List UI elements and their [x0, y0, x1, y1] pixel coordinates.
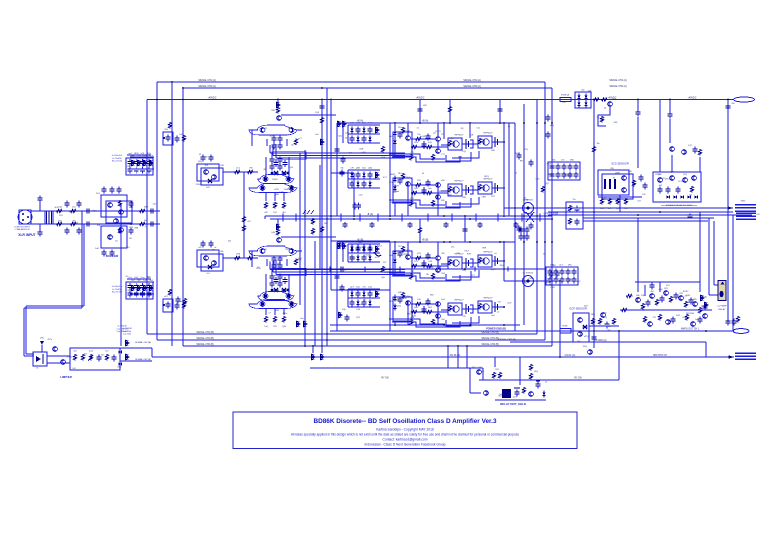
svg-text:44C: 44C — [144, 220, 148, 222]
svg-text:D7Q: D7Q — [417, 253, 422, 255]
svg-text:k7D: k7D — [59, 215, 63, 217]
svg-text:2nR: 2nR — [368, 123, 372, 125]
svg-text:CN RL (A): CN RL (A) — [450, 354, 461, 357]
svg-text:Q2D: Q2D — [414, 188, 419, 190]
svg-text:SIGNAL CH1 (B): SIGNAL CH1 (B) — [196, 331, 214, 334]
svg-text:DRC: DRC — [144, 207, 149, 209]
svg-text:R8k: R8k — [394, 191, 398, 193]
svg-text:QRD: QRD — [528, 278, 533, 280]
svg-text:D7C5: D7C5 — [436, 131, 442, 133]
svg-text:CUT AMP: CUT AMP — [717, 305, 727, 308]
svg-text:71R: 71R — [438, 191, 442, 193]
svg-text:54C: 54C — [478, 367, 482, 369]
svg-text:4x 1N4148: 4x 1N4148 — [117, 326, 126, 328]
svg-text:SIGNAL CH1 (A): SIGNAL CH1 (A) — [609, 79, 627, 82]
svg-text:1RQR: 1RQR — [272, 179, 278, 181]
svg-text:SIGNAL CH2 (B): SIGNAL CH2 (B) — [481, 343, 499, 346]
svg-text:FUSE: FUSE — [562, 326, 568, 328]
svg-text:2R1D: 2R1D — [702, 297, 708, 299]
svg-text:5k: 5k — [422, 173, 424, 175]
svg-text:7kD: 7kD — [731, 103, 735, 105]
svg-text:4x 100n-63v: 4x 100n-63v — [112, 155, 122, 157]
svg-text:7kk: 7kk — [596, 143, 599, 145]
svg-text:FUSE 5A: FUSE 5A — [561, 94, 570, 97]
svg-text:5nR: 5nR — [95, 248, 99, 250]
svg-text:kkD: kkD — [637, 298, 641, 300]
svg-text:45Rn: 45Rn — [282, 313, 287, 315]
svg-text:+45VDC: +45VDC — [208, 97, 217, 99]
svg-text:8n: 8n — [613, 178, 615, 180]
svg-text:SPK RTN CH: SPK RTN CH — [653, 355, 667, 357]
svg-text:287Q: 287Q — [484, 176, 489, 178]
svg-text:DCn: DCn — [149, 155, 153, 157]
svg-text:1k: 1k — [288, 134, 290, 136]
svg-text:5Q: 5Q — [543, 253, 546, 255]
svg-text:5DR: 5DR — [275, 310, 280, 312]
svg-text:-B (A): -B (A) — [367, 213, 373, 216]
svg-text:4x 22uF/50: 4x 22uF/50 — [112, 158, 121, 160]
svg-text:+45VDC: +45VDC — [688, 97, 697, 99]
svg-text:2nn: 2nn — [300, 318, 303, 320]
svg-text:D8C: D8C — [591, 314, 596, 316]
svg-text:nQD: nQD — [535, 178, 540, 180]
svg-text:n1D: n1D — [150, 164, 154, 166]
svg-text:kDD: kDD — [507, 302, 511, 304]
svg-text:5kC: 5kC — [608, 330, 612, 332]
svg-text:Q8D: Q8D — [275, 194, 280, 196]
svg-text:45D: 45D — [403, 298, 407, 300]
svg-text:17R: 17R — [395, 186, 399, 188]
svg-text:54D: 54D — [287, 300, 291, 302]
svg-text:Elco 47u/50: Elco 47u/50 — [112, 292, 122, 294]
svg-text:QRR: QRR — [136, 289, 141, 291]
svg-text:4x 22uF/50: 4x 22uF/50 — [112, 289, 121, 291]
svg-text:87QD: 87QD — [655, 174, 661, 176]
svg-text:72Q: 72Q — [288, 128, 292, 130]
svg-text:1QR: 1QR — [506, 392, 511, 394]
svg-text:SIGNAL CH1 (A): SIGNAL CH1 (A) — [463, 79, 481, 82]
svg-text:D7D: D7D — [299, 269, 304, 271]
svg-text:74R: 74R — [220, 165, 224, 167]
svg-text:Rk: Rk — [525, 283, 527, 285]
svg-text:DELAY DCP_SHLD: DELAY DCP_SHLD — [500, 402, 526, 406]
svg-text:SCS SENSOR: SCS SENSOR — [611, 162, 629, 166]
svg-text:5RC: 5RC — [701, 306, 706, 308]
svg-text:All ideas specially applied in: All ideas specially applied in this desi… — [291, 433, 519, 437]
svg-text:75k: 75k — [340, 168, 343, 170]
svg-text:CDn: CDn — [414, 142, 418, 144]
svg-text:kRD: kRD — [570, 160, 574, 162]
svg-text:+45VDC: +45VDC — [416, 97, 425, 99]
svg-text:IRFP4227: IRFP4227 — [483, 179, 493, 181]
svg-text:SIGNAL CH1 (B): SIGNAL CH1 (B) — [481, 337, 499, 340]
svg-text:QkR: QkR — [356, 168, 361, 170]
svg-text:C5R7: C5R7 — [615, 172, 621, 174]
svg-text:25D: 25D — [417, 180, 421, 182]
svg-text:2CQD: 2CQD — [66, 357, 72, 359]
svg-text:22R: 22R — [345, 132, 349, 134]
svg-text:82n: 82n — [220, 251, 223, 253]
svg-text:7QC: 7QC — [93, 211, 98, 213]
svg-text:Qkk: Qkk — [381, 277, 385, 279]
svg-text:4n: 4n — [36, 367, 38, 369]
svg-text:SIGNAL CH1 (B): SIGNAL CH1 (B) — [196, 337, 214, 340]
svg-text:kCC: kCC — [666, 285, 670, 287]
svg-text:CDR: CDR — [686, 295, 691, 297]
svg-text:4RQR: 4RQR — [384, 272, 390, 274]
svg-text:SIGNAL CH2 (B): SIGNAL CH2 (B) — [498, 339, 516, 342]
svg-text:kQk: kQk — [342, 309, 346, 311]
svg-text:AMPLI OUT CH 1: AMPLI OUT CH 1 — [681, 328, 700, 331]
svg-text:5Qn: 5Qn — [356, 287, 360, 289]
svg-text:SIGNAL CH2 (B): SIGNAL CH2 (B) — [135, 358, 151, 361]
svg-text:POWER GND (B): POWER GND (B) — [486, 328, 506, 331]
svg-text:k7C: k7C — [561, 160, 565, 162]
svg-text:RY ON: RY ON — [381, 378, 389, 380]
svg-text:RELAY: RELAY — [718, 308, 726, 311]
svg-text:5kk: 5kk — [552, 160, 555, 162]
svg-text:DnR: DnR — [298, 260, 303, 262]
svg-text:QQD: QQD — [275, 290, 280, 292]
svg-text:28R: 28R — [462, 197, 466, 199]
svg-text:1nQR: 1nQR — [420, 136, 426, 138]
svg-text:4Q: 4Q — [604, 313, 607, 315]
svg-text:52Q: 52Q — [683, 174, 687, 176]
svg-text:58R: 58R — [324, 223, 328, 225]
svg-text:SIGNAL CH1 (A): SIGNAL CH1 (A) — [198, 79, 216, 82]
svg-text:R54D: R54D — [108, 236, 114, 238]
svg-text:QQR: QQR — [491, 269, 496, 271]
svg-text:R7Q: R7Q — [524, 149, 529, 151]
svg-text:Indonesian - Class D Next Gene: Indonesian - Class D Next Generation Fac… — [365, 443, 446, 447]
svg-text:4Ck: 4Ck — [55, 207, 59, 209]
svg-text:2SC5200: 2SC5200 — [686, 313, 695, 315]
svg-text:+B (A): +B (A) — [422, 120, 429, 123]
svg-text:XLR INPUT: XLR INPUT — [18, 233, 35, 237]
svg-text:4QR: 4QR — [359, 149, 364, 151]
svg-text:51k: 51k — [356, 131, 359, 133]
svg-text:nDD: nDD — [441, 180, 446, 182]
svg-text:4Rn: 4Rn — [129, 207, 133, 209]
svg-text:IRFP4227: IRFP4227 — [454, 181, 464, 183]
svg-text:RQR: RQR — [450, 138, 455, 140]
svg-text:k5Q: k5Q — [134, 277, 138, 279]
svg-text:58D: 58D — [614, 122, 618, 124]
svg-text:DCC: DCC — [472, 367, 477, 369]
svg-text:7k8R: 7k8R — [142, 162, 147, 164]
svg-text:27C: 27C — [441, 134, 445, 136]
svg-text:RY ON: RY ON — [574, 378, 582, 380]
svg-text:Cap 22uF-50: Cap 22uF-50 — [116, 328, 127, 330]
svg-text:11n: 11n — [689, 194, 692, 196]
svg-text:1RR5: 1RR5 — [548, 275, 554, 277]
svg-text:CnR: CnR — [179, 134, 184, 136]
svg-text:Q2Q: Q2Q — [198, 161, 203, 163]
svg-text:74C: 74C — [101, 355, 105, 357]
svg-text:Cap 100n: Cap 100n — [123, 334, 131, 336]
svg-text:D1R: D1R — [550, 265, 555, 267]
svg-text:CkRR: CkRR — [284, 189, 290, 191]
svg-text:D7D: D7D — [368, 242, 373, 244]
svg-text:Cnn: Cnn — [141, 277, 145, 279]
svg-text:SIGNAL CH2 (A): SIGNAL CH2 (A) — [609, 85, 627, 88]
svg-text:n27Q: n27Q — [584, 336, 589, 338]
svg-text:DCD: DCD — [356, 123, 361, 125]
svg-text:CDC: CDC — [362, 242, 367, 244]
svg-text:C8Q: C8Q — [462, 270, 467, 272]
svg-text:8Q: 8Q — [461, 128, 464, 130]
svg-text:72n: 72n — [572, 199, 575, 201]
svg-text:RnQ: RnQ — [69, 212, 74, 214]
svg-text:Q4k: Q4k — [271, 232, 275, 234]
svg-text:7D7n: 7D7n — [47, 339, 52, 341]
svg-text:14DD: 14DD — [350, 258, 356, 260]
svg-text:7DCD: 7DCD — [273, 203, 279, 205]
svg-text:D1k: D1k — [417, 299, 421, 301]
svg-text:C2k: C2k — [641, 295, 645, 297]
svg-text:Cn: Cn — [597, 117, 600, 119]
svg-text:SIGNAL CH2 (A): SIGNAL CH2 (A) — [135, 341, 151, 344]
svg-text:+B (B): +B (B) — [422, 240, 429, 242]
svg-text:8CR: 8CR — [412, 315, 417, 317]
svg-text:knk: knk — [581, 90, 584, 92]
svg-text:IRFP4227: IRFP4227 — [483, 298, 493, 300]
svg-text:7QC: 7QC — [362, 123, 367, 125]
svg-text:5RC: 5RC — [58, 221, 63, 223]
svg-text:R2k: R2k — [693, 299, 697, 301]
svg-text:8k: 8k — [508, 126, 510, 128]
svg-text:Contact: kartina.id@gmail.com: Contact: kartina.id@gmail.com — [383, 437, 428, 441]
svg-text:5DQ: 5DQ — [583, 346, 588, 348]
svg-text:SIGNAL CH2 (A): SIGNAL CH2 (A) — [198, 85, 216, 88]
svg-text:CRn: CRn — [398, 127, 402, 129]
svg-text:14C: 14C — [153, 204, 157, 206]
svg-text:nRQ: nRQ — [550, 125, 555, 127]
svg-text:C7k: C7k — [562, 102, 566, 104]
svg-text:IRFP4227: IRFP4227 — [454, 300, 464, 302]
svg-text:4CD: 4CD — [628, 171, 633, 173]
svg-text:C1C: C1C — [476, 128, 481, 130]
svg-text:BD86K Disorete-- BD Self Osoil: BD86K Disorete-- BD Self Osoillation Cla… — [313, 418, 496, 425]
svg-text:4k2R: 4k2R — [515, 153, 520, 155]
svg-text:2Qn: 2Qn — [360, 247, 364, 249]
svg-text:7nQ: 7nQ — [264, 326, 268, 328]
svg-text:BUFFER: BUFFER — [106, 254, 119, 258]
svg-text:Q8k: Q8k — [368, 168, 372, 170]
svg-text:CQ5Q: CQ5Q — [395, 306, 401, 308]
svg-text:1nC: 1nC — [143, 280, 147, 282]
svg-text:GND: GND — [741, 201, 746, 203]
svg-text:Q5k: Q5k — [289, 167, 293, 169]
svg-text:54R: 54R — [350, 123, 354, 125]
svg-text:C5D: C5D — [610, 168, 615, 170]
svg-text:2Qk: 2Qk — [368, 287, 372, 289]
svg-text:15D: 15D — [568, 279, 572, 281]
svg-text:48D: 48D — [441, 200, 445, 202]
svg-text:CRR: CRR — [481, 197, 486, 199]
svg-text:2D7R: 2D7R — [274, 265, 280, 267]
svg-text:Q4D: Q4D — [414, 307, 419, 309]
svg-text:IRFP4227: IRFP4227 — [454, 135, 464, 137]
svg-text:CDDD: CDDD — [195, 184, 201, 186]
svg-text:C1D: C1D — [279, 191, 284, 193]
svg-text:Q2n: Q2n — [338, 136, 342, 138]
svg-text:LED: LED — [40, 338, 44, 340]
svg-text:4Qk: 4Qk — [89, 351, 93, 353]
svg-text:QnDR: QnDR — [499, 394, 505, 396]
svg-text:SIGNAL CH2 (B): SIGNAL CH2 (B) — [196, 343, 214, 346]
svg-text:RCR: RCR — [547, 163, 552, 165]
svg-text:5Dn: 5Dn — [498, 396, 502, 398]
svg-text:IRFP4227: IRFP4227 — [483, 252, 493, 254]
svg-text:Q1Q: Q1Q — [534, 371, 539, 373]
svg-text:D5R: D5R — [551, 287, 556, 289]
svg-text:kkk: kkk — [429, 188, 432, 190]
svg-text:+2 BALANCED IN: +2 BALANCED IN — [14, 228, 30, 231]
svg-text:11R: 11R — [495, 369, 499, 371]
svg-text:L1 TOROID: L1 TOROID — [523, 273, 534, 275]
svg-text:D7D: D7D — [665, 179, 670, 181]
svg-text:CQC: CQC — [462, 151, 467, 153]
svg-text:52R: 52R — [263, 128, 267, 130]
svg-text:kRC: kRC — [568, 265, 572, 267]
svg-text:IRFP4227: IRFP4227 — [483, 133, 493, 135]
svg-text:2nk: 2nk — [228, 241, 231, 243]
svg-text:CC1n: CC1n — [678, 181, 683, 183]
svg-text:Kartina Sarodipo - Copyright M: Kartina Sarodipo - Copyright MAY 2016 — [376, 427, 434, 431]
svg-text:4x 100n-63v: 4x 100n-63v — [112, 286, 122, 288]
svg-text:SIGNAL CH2 (A): SIGNAL CH2 (A) — [463, 85, 481, 88]
svg-text:nR4R: nR4R — [390, 174, 396, 176]
svg-text:kQR: kQR — [398, 292, 403, 294]
svg-text:RCR7: RCR7 — [683, 291, 689, 293]
svg-text:CONN XLR INPUT: CONN XLR INPUT — [14, 227, 31, 229]
svg-text:12R: 12R — [470, 134, 474, 136]
svg-text:78R: 78R — [210, 267, 214, 269]
svg-text:11R: 11R — [273, 326, 277, 328]
svg-text:5Ck: 5Ck — [206, 187, 210, 189]
svg-text:C1D: C1D — [359, 195, 364, 197]
svg-text:n7RC: n7RC — [274, 189, 280, 191]
svg-text:LIMITER: LIMITER — [60, 375, 72, 379]
svg-text:kkn: kkn — [449, 194, 452, 196]
svg-text:CN RL (C): CN RL (C) — [565, 355, 576, 357]
svg-text:R7R: R7R — [467, 253, 472, 255]
svg-text:Elco 47u/50: Elco 47u/50 — [112, 161, 122, 163]
svg-text:Cap 100n-63: Cap 100n-63 — [117, 331, 128, 333]
svg-text:DCk: DCk — [96, 193, 100, 195]
svg-text:Q4k: Q4k — [282, 326, 286, 328]
